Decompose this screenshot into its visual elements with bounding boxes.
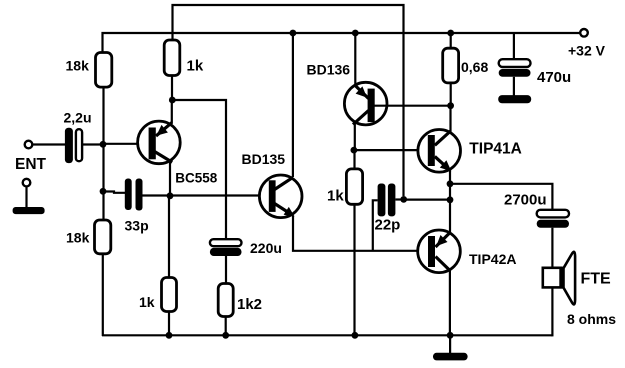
svg-text:BD136: BD136: [307, 62, 351, 78]
svg-text:ENT: ENT: [15, 156, 47, 173]
wire 22p node to output column: [404, 199, 450, 201]
speaker FTE: [543, 252, 575, 305]
svg-text:BC558: BC558: [175, 171, 218, 186]
wire top feedback rail: [173, 5, 404, 196]
wire left column: [102, 87, 104, 220]
capacitor 22p: [378, 184, 396, 217]
resistor 1k middle: [346, 169, 362, 204]
ground input: [13, 207, 45, 214]
resistor 1k upper: [164, 40, 180, 76]
junction ground rail node: [447, 332, 454, 339]
terminal +32V: [580, 29, 588, 37]
wire 33p left: [103, 192, 125, 193]
wire BD136 collector down: [354, 122, 356, 150]
wire bottom ground rail: [102, 334, 552, 336]
resistor 18k lower: [95, 220, 111, 254]
capacitor 470u: [499, 59, 531, 77]
wire BC558 collector down: [169, 162, 171, 196]
junction 1k middle rail: [352, 332, 359, 339]
junction BD136 emitter rail: [352, 30, 359, 37]
svg-text:2700u: 2700u: [504, 192, 547, 209]
svg-text:FTE: FTE: [581, 271, 612, 288]
wire 1k feedback top: [168, 196, 170, 278]
svg-text:+32 V: +32 V: [568, 43, 606, 59]
wire BD135 emitter to TIP42A base: [293, 216, 429, 251]
wire 0,68 bottom: [450, 83, 452, 106]
resistor 1k2: [218, 284, 233, 317]
wire 1k middle bottom to rail: [353, 204, 355, 336]
wire TIP42A collector to rail: [449, 270, 451, 336]
wire 2700u to speaker: [551, 228, 553, 268]
svg-text:1k: 1k: [327, 187, 344, 204]
junction BD135 collector rail: [290, 30, 297, 37]
wire 33p to BD135 base: [143, 194, 271, 196]
transistor Q3 BD136: [344, 82, 387, 125]
wire speaker bottom to rail: [551, 287, 553, 336]
wire driver node to TIP41A base: [354, 149, 429, 151]
svg-text:0,68: 0,68: [461, 59, 488, 75]
terminal input ground: [23, 179, 31, 187]
wire 0,68 top: [450, 33, 452, 48]
wire 470u bottom: [513, 77, 515, 96]
wire to main ground: [449, 335, 451, 353]
svg-text:1k: 1k: [187, 58, 204, 75]
svg-text:TIP41A: TIP41A: [469, 141, 522, 158]
wire 1k feedback bottom: [168, 312, 170, 337]
svg-text:8 ohms: 8 ohms: [567, 311, 616, 327]
wire 220u to 1k2: [225, 256, 227, 284]
transistor Q2 BD135: [259, 175, 302, 218]
junction BC558 collector node: [167, 192, 174, 199]
junction 33p node: [100, 188, 107, 195]
capacitor 2700u: [537, 210, 569, 228]
wire BC558 emitter up to 1k node: [171, 100, 174, 124]
wire 2,2u to base node: [82, 143, 103, 145]
wire 1k middle top: [353, 150, 355, 169]
svg-text:220u: 220u: [250, 240, 282, 256]
svg-text:1k2: 1k2: [237, 296, 262, 313]
svg-text:18k: 18k: [66, 57, 90, 73]
wire 22p right plate to node: [395, 198, 403, 200]
svg-text:470u: 470u: [537, 69, 571, 86]
capacitor 220u: [210, 239, 242, 256]
svg-text:BD135: BD135: [242, 151, 286, 167]
junction 0,68/BD136/TIP41A node: [447, 102, 454, 109]
transistor Q1 BC558: [138, 121, 181, 164]
terminal input ENT: [25, 141, 33, 149]
svg-text:TIP42A: TIP42A: [469, 251, 516, 267]
wire TIP41A emitter down: [449, 170, 451, 233]
svg-text:2,2u: 2,2u: [64, 109, 92, 125]
wire bootstrap to 220u: [172, 100, 226, 240]
junction output tap: [447, 180, 454, 187]
wire 1k bottom: [171, 76, 173, 101]
wire 1k2 bottom: [225, 317, 227, 337]
wire 22p left plate down: [373, 200, 378, 251]
ground 470u: [498, 95, 531, 103]
junction 1k/BC558 node: [169, 97, 176, 104]
wire TIP41A collector: [449, 106, 451, 132]
transistor Q4 TIP41A: [418, 130, 461, 173]
resistor 1k feedback: [162, 278, 177, 312]
junction 0,68 rail: [447, 30, 454, 37]
resistor 0,68: [443, 48, 459, 83]
svg-text:18k: 18k: [66, 230, 90, 246]
junction 22p column node: [447, 196, 454, 203]
capacitor 33p: [125, 179, 143, 211]
wire BD135 collector up to rail: [292, 33, 294, 177]
resistor 18k upper: [96, 53, 112, 88]
wire BD136 emitter up to rail: [354, 33, 356, 84]
wire BD136 base to 0,68 node: [374, 105, 451, 107]
wire left column to bottom rail: [102, 254, 104, 336]
wire input: [33, 143, 65, 145]
svg-text:22p: 22p: [375, 217, 401, 234]
wire to input ground: [25, 187, 27, 208]
wire +32V main rail: [103, 33, 580, 53]
junction input node: [100, 141, 107, 148]
svg-text:1k: 1k: [139, 294, 155, 310]
wire BC558 base: [103, 143, 149, 145]
ground main: [433, 353, 468, 361]
transistor Q5 TIP42A: [418, 230, 461, 273]
junction driver node: [351, 147, 358, 154]
capacitor 2,2u: [65, 128, 82, 163]
junction 1k2 bottom rail: [222, 332, 229, 339]
wire output to 2700u: [450, 184, 552, 211]
junction 1k bottom rail: [166, 332, 173, 339]
svg-text:33p: 33p: [125, 218, 149, 234]
wire 470u top: [513, 33, 515, 60]
junction 22p node: [400, 196, 407, 203]
